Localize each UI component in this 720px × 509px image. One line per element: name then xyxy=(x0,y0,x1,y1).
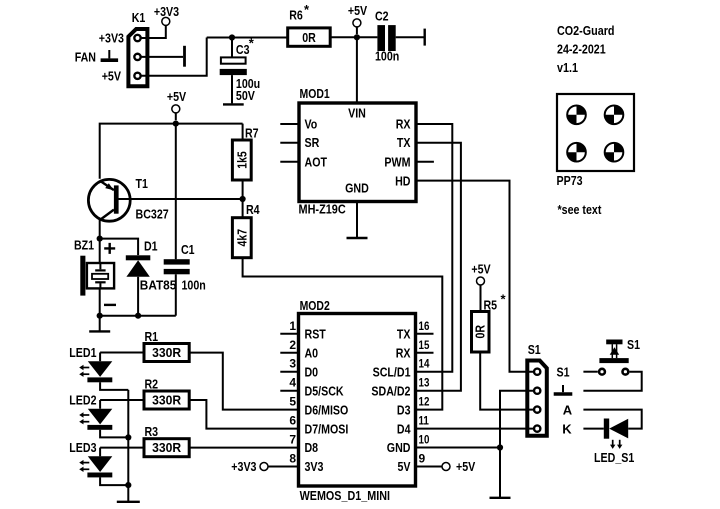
power +5V at pin 9 xyxy=(416,466,442,468)
svg-text:1k5: 1k5 xyxy=(234,151,249,169)
svg-text:100n: 100n xyxy=(182,278,206,293)
svg-text:TX: TX xyxy=(397,327,411,342)
svg-text:9: 9 xyxy=(419,452,426,466)
svg-text:Vo: Vo xyxy=(305,117,318,132)
svg-text:10: 10 xyxy=(419,433,430,447)
svg-text:330R: 330R xyxy=(152,393,182,408)
svg-text:5: 5 xyxy=(289,395,296,409)
svg-text:PWM: PWM xyxy=(384,154,410,169)
wire R7 top drop xyxy=(242,124,244,140)
LED LED1 xyxy=(69,345,128,390)
FAN terminal symbol xyxy=(101,50,119,60)
svg-text:SCL/D1: SCL/D1 xyxy=(373,364,411,379)
module MOD1 MH-Z19C xyxy=(299,103,416,202)
wire R1 to MOD2 D6/MISO xyxy=(189,353,298,410)
wire S1 pin2 to GND xyxy=(500,391,537,448)
svg-text:50V: 50V xyxy=(236,88,255,103)
svg-text:D3: D3 xyxy=(397,402,411,417)
node junction C3 xyxy=(229,34,235,40)
svg-text:R1: R1 xyxy=(145,329,159,344)
svg-text:TX: TX xyxy=(397,135,411,150)
svg-text:MH-Z19C: MH-Z19C xyxy=(299,202,347,217)
svg-text:4k7: 4k7 xyxy=(234,229,249,247)
wire R7 bottom to base node xyxy=(242,180,244,199)
svg-text:1: 1 xyxy=(289,319,296,333)
node junction base/R7/R4 xyxy=(240,196,246,202)
wire BZ1 vertical xyxy=(99,239,101,316)
resistor R6 xyxy=(288,28,331,46)
svg-text:MOD1: MOD1 xyxy=(300,86,330,101)
wire bottom rail BZ1/D1/C1 xyxy=(100,315,176,317)
wire MOD1 RX to MOD2 SCL/D1 xyxy=(416,124,453,372)
ground S1/MOD2 xyxy=(490,497,511,499)
svg-text:SDA/D2: SDA/D2 xyxy=(371,383,410,398)
wire R6 to C2 xyxy=(330,36,377,38)
svg-text:BC327: BC327 xyxy=(136,206,169,221)
svg-text:D0: D0 xyxy=(305,364,319,379)
wire MOD1 Vo stub xyxy=(280,123,299,125)
svg-text:+3V3: +3V3 xyxy=(231,459,256,474)
buzzer BZ1 xyxy=(74,238,116,305)
ground MOD1 xyxy=(347,237,368,239)
svg-text:*see text: *see text xyxy=(558,202,602,217)
svg-text:BZ1: BZ1 xyxy=(74,238,94,253)
svg-text:LED1: LED1 xyxy=(69,345,96,360)
svg-text:WEMOS_D1_MINI: WEMOS_D1_MINI xyxy=(300,488,390,503)
wire pin11 D4 to S1 pin4 xyxy=(416,428,538,430)
svg-text:330R: 330R xyxy=(152,440,182,455)
svg-text:v1.1: v1.1 xyxy=(557,60,578,75)
svg-text:D1: D1 xyxy=(144,238,158,253)
svg-text:GND: GND xyxy=(345,181,369,196)
wire LED2 to R2 xyxy=(100,399,144,401)
svg-text:T1: T1 xyxy=(136,176,148,191)
wire R4 bottom to MOD2 D3 xyxy=(243,258,443,410)
LED LED3 xyxy=(69,440,128,485)
svg-text:LED3: LED3 xyxy=(69,440,96,455)
svg-text:15: 15 xyxy=(419,338,430,352)
module MOD2 WEMOS_D1_MINI xyxy=(299,314,416,487)
svg-text:C1: C1 xyxy=(181,242,195,257)
svg-text:R7: R7 xyxy=(245,125,259,140)
pin 15 RX xyxy=(416,352,434,354)
resistor R4 xyxy=(242,199,244,218)
wire collector node to D1 xyxy=(100,239,138,256)
svg-text:0R: 0R xyxy=(473,324,488,338)
svg-text:R3: R3 xyxy=(145,424,159,439)
svg-text:SR: SR xyxy=(305,135,320,150)
svg-text:C2: C2 xyxy=(375,8,389,23)
svg-text:+5V: +5V xyxy=(102,68,122,83)
connector K1 xyxy=(128,29,147,86)
LED LED_S1 (external) xyxy=(583,410,641,449)
ground LED bus xyxy=(117,501,140,503)
svg-text:3: 3 xyxy=(289,357,296,371)
wire LED cathode bus xyxy=(127,390,129,502)
svg-text:CO2-Guard: CO2-Guard xyxy=(557,23,615,38)
wire +5V rail to R6 xyxy=(207,37,288,39)
wire pin10 GND xyxy=(416,447,501,449)
svg-text:0R: 0R xyxy=(302,30,316,45)
wire MOD1 TX to MOD2 SDA/D2 xyxy=(416,143,461,391)
wire MOD1 PWM stub xyxy=(416,161,434,163)
svg-text:GND: GND xyxy=(387,440,411,455)
svg-text:PP73: PP73 xyxy=(557,173,583,188)
power +5V symbol (R5) xyxy=(477,277,485,285)
svg-text:330R: 330R xyxy=(152,345,182,360)
svg-text:FAN: FAN xyxy=(75,50,96,65)
svg-text:RX: RX xyxy=(396,346,411,361)
node junction +5V rail / C1 xyxy=(173,121,179,127)
svg-text:24-2-2021: 24-2-2021 xyxy=(557,42,606,57)
wire R5 to S1 pin3 xyxy=(480,352,537,410)
pin 2 A0 xyxy=(280,352,298,354)
power +3V3 at pin 8 xyxy=(260,463,268,471)
svg-text:13: 13 xyxy=(419,376,430,390)
svg-text:RX: RX xyxy=(396,117,411,132)
power +3V3 symbol xyxy=(162,17,170,25)
pin 3 D0 xyxy=(280,371,298,373)
svg-text:C3: C3 xyxy=(236,42,250,57)
svg-text:D6/MISO: D6/MISO xyxy=(305,402,349,417)
svg-text:S1: S1 xyxy=(627,337,640,352)
wire MOD1 SR stub xyxy=(280,142,299,144)
capacitor C1 xyxy=(164,124,190,316)
wire +5V junction down to MOD1 VIN xyxy=(356,37,358,103)
svg-text:12: 12 xyxy=(419,395,430,409)
svg-text:6: 6 xyxy=(289,414,296,428)
node junction BZ1/gnd xyxy=(97,313,103,319)
wire K1 pin1 to +3V3 xyxy=(141,26,165,38)
svg-text:R4: R4 xyxy=(246,202,260,217)
svg-text:4: 4 xyxy=(289,376,296,390)
svg-text:A: A xyxy=(563,402,573,417)
svg-text:8: 8 xyxy=(289,452,296,466)
svg-text:RST: RST xyxy=(305,327,326,342)
resistor R7 xyxy=(232,140,251,180)
pin2 terminal bar xyxy=(183,46,186,67)
svg-text:VIN: VIN xyxy=(348,106,366,121)
connector S1 xyxy=(527,361,547,436)
capacitor C2 xyxy=(377,25,424,51)
wire K1 pin3 to +5V rail xyxy=(141,38,206,76)
svg-text:BAT85: BAT85 xyxy=(140,278,177,293)
svg-text:16: 16 xyxy=(419,319,430,333)
capacitor C3 xyxy=(220,38,247,105)
svg-text:AOT: AOT xyxy=(305,154,328,169)
power +5V symbol (left rail) xyxy=(172,105,180,113)
svg-text:MOD2: MOD2 xyxy=(300,298,330,313)
svg-text:K1: K1 xyxy=(132,10,146,25)
wire K1 pin2 stub xyxy=(141,56,183,58)
svg-text:+5V: +5V xyxy=(348,3,368,18)
node junction D1 bottom xyxy=(135,313,141,319)
svg-text:LED_S1: LED_S1 xyxy=(594,450,634,465)
svg-text:A0: A0 xyxy=(305,346,319,361)
ground BZ1 xyxy=(99,316,101,332)
svg-text:7: 7 xyxy=(289,433,296,447)
svg-text:D5/SCK: D5/SCK xyxy=(305,383,345,398)
LED LED2 xyxy=(69,392,128,437)
svg-text:11: 11 xyxy=(419,414,430,428)
node junction T1 collector / BZ1 / D1 xyxy=(97,236,103,242)
transistor T1 BC327 xyxy=(88,179,130,238)
PCB pads PP73 xyxy=(557,94,634,171)
svg-text:3V3: 3V3 xyxy=(305,459,324,474)
svg-text:5V: 5V xyxy=(398,459,411,474)
svg-text:14: 14 xyxy=(419,357,430,371)
net terminal symbol xyxy=(554,385,573,394)
svg-text:100n: 100n xyxy=(375,49,399,64)
wire R3 to MOD2 D8 xyxy=(189,447,298,449)
wire GND down xyxy=(499,448,501,498)
wire MOD1 GND down xyxy=(356,202,358,239)
svg-text:K: K xyxy=(562,421,572,436)
wire MOD1 HD to S1 pin1 xyxy=(416,181,537,372)
svg-text:+5V: +5V xyxy=(456,459,476,474)
wire LED1 to R1 xyxy=(100,352,144,354)
wire T1 base xyxy=(116,198,242,200)
wire MOD1 AOT stub xyxy=(280,161,299,163)
svg-text:R2: R2 xyxy=(145,376,159,391)
svg-text:2: 2 xyxy=(289,338,296,352)
switch S1 (external) xyxy=(583,340,641,391)
node junction GND xyxy=(497,444,503,450)
pin 1 RST xyxy=(280,333,298,335)
node junction LED2 cathode xyxy=(125,434,131,440)
wire R2 to MOD2 D7/MOSI xyxy=(189,400,298,429)
power +5V symbol (top) xyxy=(353,19,361,27)
node junction LED3 cathode xyxy=(125,482,131,488)
pin 16 TX xyxy=(416,333,434,335)
svg-text:D8: D8 xyxy=(305,440,319,455)
node junction +5V/VIN xyxy=(354,34,360,40)
svg-text:+5V: +5V xyxy=(167,89,187,104)
svg-text:LED2: LED2 xyxy=(69,392,96,407)
svg-text:S1: S1 xyxy=(528,342,541,357)
svg-text:D4: D4 xyxy=(397,421,411,436)
svg-text:+3V3: +3V3 xyxy=(99,31,124,46)
diode D1 BAT85 xyxy=(126,255,151,315)
pin 4 D5/SCK xyxy=(280,390,298,392)
svg-text:+3V3: +3V3 xyxy=(154,4,179,19)
svg-text:R6: R6 xyxy=(289,7,303,22)
wire +5V rail left xyxy=(100,124,243,179)
svg-text:HD: HD xyxy=(395,173,410,188)
svg-text:+5V: +5V xyxy=(471,261,491,276)
svg-text:D7/MOSI: D7/MOSI xyxy=(305,421,349,436)
wire LED3 to R3 xyxy=(100,447,144,449)
svg-text:S1: S1 xyxy=(557,364,570,379)
